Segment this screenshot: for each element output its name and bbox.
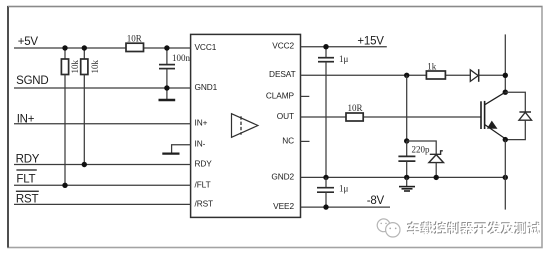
svg-text:1k: 1k: [427, 61, 437, 71]
node junction GND2/C2: [323, 175, 328, 180]
capacitor C3 220p (blanking): [398, 141, 430, 177]
svg-text:RDY: RDY: [195, 158, 213, 168]
svg-text:VEE2: VEE2: [273, 201, 294, 211]
wire OUT line to gate: [301, 116, 481, 118]
capacitor C2 1u (VCC2-GND2): [318, 47, 349, 178]
svg-text:10k: 10k: [70, 60, 80, 74]
svg-text:-8V: -8V: [367, 195, 385, 207]
pin CLAMP stub: [301, 95, 310, 97]
wire +5V rail left: [14, 47, 191, 49]
svg-text:100n: 100n: [172, 53, 191, 63]
svg-text:220p: 220p: [412, 144, 431, 154]
node junction on VCC1 at C1: [164, 45, 169, 50]
node junction emitter/diode: [503, 137, 508, 142]
svg-text:/FLT: /FLT: [195, 179, 211, 189]
svg-text:+15V: +15V: [357, 35, 384, 47]
svg-text:OUT: OUT: [277, 111, 294, 121]
svg-text:GND1: GND1: [195, 82, 218, 92]
resistor R4 1k (DESAT sense): [426, 61, 445, 79]
svg-text:FLT: FLT: [16, 174, 35, 186]
node junction FLT/R2: [62, 183, 67, 188]
svg-text:IN+: IN+: [195, 118, 208, 128]
watermark logo icon: [377, 219, 400, 237]
resistor R1 10R (series on +5V): [126, 34, 144, 52]
wire DESAT blanking vertical: [406, 75, 408, 141]
wire DESAT line: [301, 74, 506, 76]
resistor R2 10k pull-up (to /FLT): [61, 48, 80, 185]
op-amp U1 internal amplifier triangle: [232, 114, 258, 138]
node junction DESAT/blanking branch: [404, 73, 409, 78]
svg-text:10k: 10k: [90, 60, 100, 74]
wire RST rail: [14, 203, 191, 205]
svg-text:SGND: SGND: [16, 75, 48, 87]
capacitor C1 100n (VCC1 decoupling): [159, 48, 191, 88]
wire IN- low-level tie: [172, 145, 191, 154]
svg-text:VCC2: VCC2: [272, 41, 294, 51]
wire IN+ rail: [14, 123, 191, 125]
svg-text:DESAT: DESAT: [269, 69, 296, 79]
transistor Q1 IGBT: [481, 92, 505, 139]
svg-text:IN-: IN-: [195, 138, 206, 148]
capacitor C4 1u (GND2-VEE2): [317, 177, 349, 207]
diode D1 (DESAT blocking): [470, 69, 478, 82]
svg-text:+5V: +5V: [18, 36, 39, 48]
node junction on +5V at R2: [62, 45, 67, 50]
svg-text:1μ: 1μ: [339, 54, 349, 64]
node junction blanking node: [404, 138, 409, 143]
node junction GND2/D3: [434, 175, 439, 180]
svg-text:NC: NC: [282, 135, 294, 145]
wire collector rail: [504, 34, 506, 92]
diode D2 free-wheeling: [505, 92, 531, 139]
net label FLT with overline: [16, 170, 36, 186]
node junction collector/DESAT: [503, 73, 508, 78]
node junction collector/diode branch: [503, 90, 508, 95]
node junction GND2/C3: [404, 175, 409, 180]
svg-text:CLAMP: CLAMP: [266, 90, 295, 100]
svg-text:1μ: 1μ: [339, 183, 349, 193]
wire VEE2 rail to -8V: [301, 206, 391, 208]
svg-text:10R: 10R: [348, 103, 363, 113]
node junction on SGND at C1: [164, 85, 169, 90]
node junction on +5V at R3: [82, 45, 87, 50]
svg-text:VCC1: VCC1: [195, 42, 217, 52]
ground (earth symbol on GND2): [399, 177, 415, 191]
diode D3 zener (DESAT clamp): [407, 141, 444, 177]
wire RDY rail: [14, 164, 191, 166]
resistor R5 10R (gate resistor): [346, 103, 363, 121]
resistor R3 10k pull-up (to RDY): [81, 48, 101, 165]
wire GND2 rail: [301, 176, 506, 178]
wire VCC2 to +15V: [301, 46, 387, 48]
wire emitter rail down: [504, 140, 506, 210]
wire FLT rail: [14, 184, 191, 186]
node junction RDY/R3: [82, 162, 87, 167]
pin NC stub: [301, 140, 310, 142]
node junction GND2/emitter: [503, 175, 508, 180]
svg-text:RST: RST: [16, 193, 39, 205]
wire SGND rail: [14, 87, 191, 89]
svg-text:/RST: /RST: [195, 198, 214, 208]
ground (signal ground bar under C1): [159, 88, 176, 100]
node junction VCC2/C2: [323, 44, 328, 49]
svg-text:10R: 10R: [127, 34, 142, 44]
node junction VEE2/C4: [323, 204, 328, 209]
net label RST with overline: [16, 191, 39, 205]
IC U1 gate driver box: [191, 34, 301, 217]
svg-text:GND2: GND2: [271, 171, 294, 181]
